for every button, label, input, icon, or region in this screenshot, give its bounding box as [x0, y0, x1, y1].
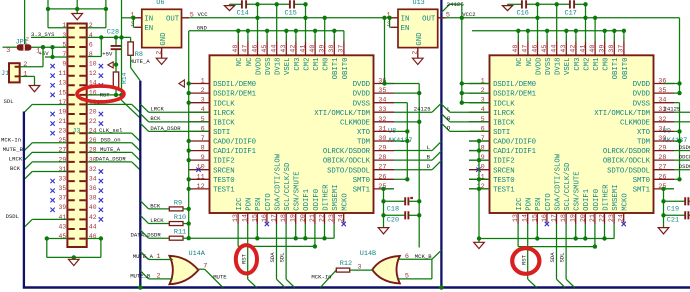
bus entry DATA_DSDR [140, 230, 148, 238]
svg-text:24: 24 [618, 214, 626, 222]
VCC2 rail U13 OUT to right edge [446, 17, 680, 19]
svg-text:15: 15 [251, 214, 259, 222]
svg-text:MUTE_A: MUTE_A [130, 58, 151, 65]
bus entry CLK_sel [132, 133, 141, 141]
regulator U6 [142, 9, 182, 47]
wire J3 pin 45 to ground [47, 238, 68, 240]
svg-text:45: 45 [261, 45, 269, 53]
svg-text:27: 27 [658, 164, 666, 172]
svg-text:J1: J1 [1, 70, 9, 78]
bus entry LRCK [140, 215, 148, 223]
svg-text:CM3: CM3 [574, 58, 582, 71]
svg-text:VSEL: VSEL [284, 58, 292, 76]
wire VCC rail U6 OUT to U13 IN [189, 17, 390, 19]
svg-text:18: 18 [280, 214, 288, 222]
U9 pin 13 drop to lower rail [517, 234, 519, 247]
svg-text:9: 9 [201, 154, 205, 162]
svg-text:TEST1: TEST1 [213, 187, 235, 195]
svg-text:VCC: VCC [198, 11, 209, 18]
svg-text:DV18: DV18 [555, 58, 563, 76]
connector J3 body [67, 24, 86, 248]
cap rail with C16 C17 [508, 3, 522, 5]
svg-text:DSDIL/DEM0: DSDIL/DEM0 [213, 81, 256, 89]
U6 pin 1 stub [135, 17, 142, 19]
wire J3 pin 26 DSD_on [87, 142, 132, 144]
svg-text:DSDOR: DSDOR [679, 144, 690, 151]
svg-text:SCL/CCLK/SD: SCL/CCLK/SD [564, 162, 572, 211]
svg-text:DVDD: DVDD [633, 81, 651, 89]
svg-text:SDA: SDA [549, 252, 556, 263]
hierarchical pin arrow at C28/R14 node [108, 62, 113, 68]
U9 TDM wire [674, 140, 680, 142]
svg-text:1: 1 [201, 78, 205, 86]
svg-text:IBICK: IBICK [213, 119, 235, 127]
svg-text:DSDL: DSDL [6, 213, 19, 220]
svg-text:19: 19 [570, 214, 578, 222]
svg-text:DVDD: DVDD [353, 91, 371, 99]
svg-text:37: 37 [338, 45, 346, 53]
svg-text:6: 6 [89, 41, 93, 48]
svg-text:35: 35 [378, 87, 386, 95]
U8 SDA drop [276, 234, 278, 280]
bus entry pin 18 [132, 104, 141, 112]
svg-text:DVSS: DVSS [353, 100, 371, 108]
svg-text:SDTI: SDTI [213, 129, 230, 137]
svg-text:U14A: U14A [189, 250, 206, 258]
svg-text:NC: NC [526, 57, 534, 66]
svg-text:C19: C19 [667, 205, 679, 213]
U9 PDN RST drop [527, 234, 529, 280]
svg-text:DVSS: DVSS [265, 57, 273, 75]
U9 top pin risers to GND rail [517, 31, 519, 35]
svg-text:CDTO: CDTO [265, 193, 273, 211]
wires U9 pins 1-3 [462, 83, 490, 85]
vertical DVSS to XTO TDM SMT0 right [679, 103, 681, 180]
svg-text:40: 40 [589, 45, 597, 53]
svg-text:SDA: SDA [269, 252, 276, 263]
U14A output diagonal to bus [205, 269, 223, 287]
bus 4 vertical [440, 0, 442, 288]
ground symbol under C19 C21 [658, 228, 669, 234]
connector J3 no-connect marks right (pins 10,12,14,20,22,32,34,36,38,40,42) [99, 64, 103, 68]
svg-text:BCK: BCK [150, 202, 161, 209]
bus entry MUTE_A [132, 152, 141, 160]
svg-text:XTO: XTO [637, 129, 651, 137]
svg-text:OLRCK/DSDOR: OLRCK/DSDOR [603, 148, 651, 156]
svg-text:42: 42 [570, 45, 578, 53]
svg-text:TEST1: TEST1 [493, 187, 515, 195]
svg-text:36: 36 [89, 185, 97, 192]
svg-text:CM2: CM2 [303, 58, 311, 71]
svg-text:5: 5 [201, 116, 205, 124]
ground symbol U13 [413, 58, 424, 64]
svg-text:35: 35 [59, 185, 67, 192]
svg-text:13: 13 [232, 214, 240, 222]
svg-text:2: 2 [412, 51, 420, 55]
svg-text:ODIF0: ODIF0 [593, 189, 601, 211]
svg-text:TDM: TDM [357, 139, 370, 147]
U6 EN wire [132, 18, 134, 28]
bus entry DSDL [24, 219, 32, 227]
svg-text:6: 6 [201, 125, 205, 133]
svg-text:C18: C18 [387, 205, 399, 213]
svg-text:C17: C17 [565, 10, 577, 18]
ground symbol J1 [29, 86, 40, 92]
svg-text:35: 35 [658, 87, 666, 95]
svg-text:14: 14 [242, 214, 250, 222]
svg-text:R10: R10 [174, 214, 186, 222]
svg-text:PDN: PDN [246, 198, 254, 211]
resistor R14 [113, 72, 118, 87]
svg-text:20: 20 [299, 214, 307, 222]
svg-text:2: 2 [201, 87, 205, 95]
svg-text:TEST0: TEST0 [493, 177, 514, 185]
ground symbol U6 [156, 58, 167, 64]
capacitor C17 [570, 0, 574, 8]
svg-text:3: 3 [6, 47, 10, 55]
svg-text:CSN/SMUTE: CSN/SMUTE [294, 171, 302, 210]
wire J3 pin 28 MUTE_A [87, 151, 132, 153]
cap rail with C14 C15 [230, 3, 242, 5]
wire J3 pin 2 [87, 27, 106, 29]
U13 pin 5 stub [438, 17, 446, 19]
svg-text:18: 18 [560, 214, 568, 222]
pin 36 corner down to pin 35 [418, 84, 420, 94]
svg-text:19: 19 [290, 214, 298, 222]
capacitor C21 [664, 214, 685, 216]
hierarchical arrow at U8 pin 1 [179, 80, 185, 87]
svg-text:BCK: BCK [10, 165, 21, 172]
U9 top pins 48-37 [517, 42, 519, 56]
wire RST into bus [121, 95, 123, 100]
svg-text:13: 13 [59, 80, 67, 87]
U8 left pins 1-12 [189, 83, 210, 85]
svg-text:LRCK: LRCK [150, 217, 164, 224]
svg-text:46: 46 [531, 45, 539, 53]
svg-text:GND: GND [160, 32, 168, 46]
svg-text:24125: 24125 [664, 105, 681, 112]
svg-text:30: 30 [378, 135, 386, 143]
svg-text:37: 37 [618, 45, 626, 53]
CLKMODE wire [394, 121, 419, 123]
svg-text:15: 15 [531, 214, 539, 222]
svg-text:OBIT1: OBIT1 [612, 57, 620, 80]
svg-text:SDL: SDL [4, 98, 14, 105]
svg-text:23: 23 [608, 214, 616, 222]
DVSS pin 34 wire [394, 102, 407, 104]
U8 SDL drop [285, 234, 287, 280]
svg-text:40: 40 [89, 204, 97, 211]
svg-text:1: 1 [23, 70, 27, 78]
svg-text:43: 43 [560, 45, 568, 53]
regulator U13 [398, 9, 438, 47]
U9 XTI wire with 24125 label [674, 111, 690, 113]
OR gate U14A [170, 256, 199, 284]
capacitor C18 [384, 200, 405, 202]
bus entry SDL [24, 104, 32, 112]
svg-text:MUTE_B: MUTE_B [3, 146, 24, 153]
svg-text:CM1: CM1 [593, 57, 601, 71]
svg-text:26: 26 [378, 173, 386, 181]
svg-text:IDIF2: IDIF2 [493, 158, 514, 166]
SMT0 wire [394, 178, 407, 180]
svg-text:SMSEMI: SMSEMI [612, 185, 620, 211]
U9 right side DVDD pin 36 wire [664, 83, 680, 85]
U9 risers DVDD DV18 CM2 to cap rail [537, 4, 539, 35]
svg-text:28: 28 [378, 154, 386, 162]
svg-text:DVDD: DVDD [255, 57, 263, 75]
svg-text:21: 21 [59, 118, 67, 125]
svg-text:XTO: XTO [357, 129, 371, 137]
U14B feedback to input 5 [431, 259, 433, 279]
svg-text:U14B: U14B [360, 250, 376, 258]
rail under U8 bottom pins [189, 237, 334, 239]
svg-text:42: 42 [89, 214, 97, 221]
svg-text:2: 2 [26, 37, 29, 43]
connector J1 [9, 63, 20, 82]
svg-text:+5V: +5V [102, 50, 113, 57]
svg-text:10: 10 [89, 61, 97, 68]
svg-text:C21: C21 [667, 217, 679, 225]
ground symbol on top rail [76, 9, 78, 14]
U9 DVSS pin 34 wire [674, 102, 680, 104]
wire J3 pin 31 BCK [32, 171, 67, 173]
resistor R11 [169, 236, 183, 240]
lower rail pin13 to pin21 [238, 245, 315, 247]
JP1 pin 2 wire from top [24, 0, 26, 44]
svg-text:42: 42 [290, 45, 298, 53]
bus entry XTI [432, 103, 441, 112]
SMT1 pin 25 wire [383, 188, 394, 190]
U8 no-connect pin 10 [196, 168, 200, 172]
svg-text:GND: GND [416, 32, 424, 46]
U9 SMT1 pin 25 wire [663, 188, 674, 190]
svg-text:22: 22 [89, 118, 97, 125]
ground symbol at cap rail [229, 4, 231, 5]
U9 no-connect CDTO pin 16 [545, 222, 549, 226]
svg-text:32: 32 [378, 116, 386, 124]
svg-text:C20: C20 [387, 217, 399, 225]
riser to J3 pin 7 wire [52, 47, 54, 57]
svg-text:38: 38 [608, 45, 616, 53]
svg-text:ODIF0: ODIF0 [313, 189, 321, 211]
svg-text:DVSS: DVSS [545, 57, 553, 75]
U6 pin 5 stub [182, 17, 190, 19]
U9 left pins 1-12 [469, 83, 490, 85]
svg-text:DSDIL/DEM0: DSDIL/DEM0 [493, 81, 536, 89]
junction dots on top rail [46, 7, 50, 11]
bus entry 24125 at top [441, 4, 449, 12]
wire J1 pin 1 to ground [20, 75, 35, 77]
capacitor C14 [242, 0, 246, 8]
svg-text:19: 19 [59, 108, 67, 115]
svg-text:OBICK/ODCLK: OBICK/ODCLK [323, 158, 371, 166]
wire J3 pin 7 [45, 56, 67, 58]
svg-text:SMT1: SMT1 [633, 187, 651, 195]
svg-text:LRCK: LRCK [150, 106, 164, 113]
svg-text:33: 33 [59, 175, 67, 182]
svg-text:TDM: TDM [637, 139, 650, 147]
wire J3 pin 3 [31, 36, 67, 38]
SRC IC U9 AK4137 body [490, 55, 654, 213]
U9 XTO wire [674, 130, 680, 132]
svg-text:SMT1: SMT1 [353, 187, 371, 195]
svg-text:46: 46 [251, 45, 259, 53]
bus entry MUTE_B [24, 152, 32, 160]
U13 pin 1 stub [391, 17, 398, 19]
wire JP1 to J3 pin 5 [32, 46, 68, 48]
U8 bottom pins 13-24 [237, 213, 239, 224]
svg-text:IDIF2: IDIF2 [213, 158, 234, 166]
svg-text:NC: NC [236, 57, 244, 66]
svg-text:RST: RST [100, 91, 111, 98]
wire to resistor R11 [149, 237, 170, 239]
wire risers to sheet edge [47, 0, 49, 9]
svg-text:3: 3 [201, 97, 205, 105]
svg-text:OUT: OUT [422, 15, 436, 23]
svg-text:37: 37 [59, 195, 67, 202]
wire J3 pin 30 DATA_DSDR [87, 161, 132, 163]
svg-text:SDTI: SDTI [493, 129, 510, 137]
svg-text:ILRCK: ILRCK [213, 110, 235, 118]
svg-text:24125: 24125 [414, 105, 431, 112]
svg-text:SRCEN: SRCEN [213, 167, 234, 175]
U8 PDN RST drop [247, 234, 249, 280]
U9 no-connect MCKO pin 24 [622, 222, 626, 226]
U9 SDA drop [556, 234, 558, 280]
svg-text:I2C: I2C [516, 197, 524, 211]
bus 1 vertical left [23, 112, 25, 288]
svg-text:VCC2: VCC2 [462, 11, 475, 18]
svg-text:23: 23 [328, 214, 336, 222]
wire J3 pin 41 DSDL [32, 218, 67, 220]
svg-text:43: 43 [59, 223, 67, 230]
U14A output pin 7 [198, 268, 204, 270]
U9 pin 40 riser to VCC2 rail [594, 18, 596, 35]
bus junction dots [138, 285, 143, 290]
svg-text:MUTE_B: MUTE_B [130, 272, 151, 279]
U8 risers DVDD DV18 CM2 to cap rail [257, 4, 259, 35]
vertical to CLKMODE and C18 C20 [418, 93, 420, 247]
svg-text:21: 21 [309, 214, 317, 222]
connector J3 inner pin stubs [68, 28, 86, 239]
bus entry MCK-In [320, 270, 336, 287]
svg-text:DVDD: DVDD [633, 91, 651, 99]
svg-text:12: 12 [89, 70, 97, 77]
svg-text:29: 29 [658, 145, 666, 153]
resistor R8 [128, 42, 133, 55]
svg-text:22: 22 [319, 214, 327, 222]
svg-text:4: 4 [201, 106, 205, 114]
svg-text:11: 11 [197, 173, 205, 181]
GND rail above U8 [189, 30, 344, 32]
svg-text:XTI/OMCLK/TDM: XTI/OMCLK/TDM [594, 110, 650, 118]
svg-text:12: 12 [197, 183, 205, 191]
SMT1 drop to C18 C20 ground [383, 189, 385, 228]
svg-text:OBIT0: OBIT0 [622, 58, 630, 80]
svg-text:17: 17 [551, 214, 559, 222]
U9 SMT1 drop to C19 C21 ground [663, 189, 665, 228]
svg-text:DSDOL: DSDOL [679, 163, 690, 170]
svg-text:IN: IN [144, 15, 153, 23]
svg-text:XTI/OMCLK/TDM: XTI/OMCLK/TDM [314, 110, 370, 118]
wire J3 pin 18 [87, 103, 132, 105]
wire J3 pin 4 to R8 [87, 36, 131, 38]
svg-text:L: L [427, 144, 430, 151]
U13 EN wire [389, 18, 391, 28]
svg-text:47: 47 [522, 45, 530, 53]
svg-text:39: 39 [319, 45, 327, 53]
svg-text:39: 39 [599, 45, 607, 53]
resistor R12 [336, 268, 349, 272]
svg-text:DITHER: DITHER [602, 184, 610, 211]
svg-text:32: 32 [658, 116, 666, 124]
svg-text:CM0: CM0 [603, 58, 611, 71]
wire J1 pin 2 to +5V [20, 66, 43, 68]
svg-text:BCK: BCK [150, 115, 161, 122]
wire J3 pin 29 LRCK [32, 161, 67, 163]
svg-text:4: 4 [481, 106, 485, 114]
svg-text:6: 6 [481, 125, 485, 133]
svg-text:2: 2 [157, 272, 161, 280]
svg-text:R9: R9 [174, 199, 182, 207]
svg-text:VSEL: VSEL [564, 58, 572, 76]
svg-text:PSN: PSN [535, 198, 543, 211]
wire R9 to junction [183, 208, 189, 210]
svg-text:3: 3 [481, 97, 485, 105]
svg-text:MUTE_A: MUTE_A [100, 146, 121, 153]
svg-text:32: 32 [89, 166, 97, 173]
svg-text:DATA_DSDR: DATA_DSDR [96, 156, 127, 163]
ground symbol under C18 C20 [378, 228, 389, 234]
bus 2 vertical [139, 81, 141, 288]
svg-text:48: 48 [232, 45, 240, 53]
U8 left ground vertical [188, 31, 190, 239]
svg-text:9: 9 [481, 154, 485, 162]
svg-text:MUTE: MUTE [213, 273, 227, 280]
svg-text:DITHER: DITHER [322, 184, 330, 211]
svg-text:1: 1 [481, 78, 485, 86]
U8 top pins 48-37 [237, 42, 239, 56]
U8 right side: DVDD pin 36 wire [385, 83, 420, 85]
svg-text:U6: U6 [156, 0, 164, 7]
svg-text:CSN/SMUTE: CSN/SMUTE [574, 171, 582, 210]
riser pin4 to pin8 wire [100, 37, 102, 56]
wire J3 pin 8 [87, 56, 102, 58]
svg-text:27: 27 [378, 164, 386, 172]
svg-text:R11: R11 [174, 229, 186, 237]
svg-text:NC: NC [516, 57, 524, 66]
svg-text:SDA/CDTI/SLOW: SDA/CDTI/SLOW [554, 153, 562, 211]
svg-text:21: 21 [589, 214, 597, 222]
DVDD pin 35 wire [394, 92, 419, 94]
svg-text:33: 33 [378, 106, 386, 114]
svg-text:43: 43 [280, 45, 288, 53]
3.3_SYS spine wire from sheet top to U6 and RST row [121, 0, 123, 95]
svg-text:ODIF1: ODIF1 [583, 188, 591, 211]
TDM wire [394, 140, 407, 142]
svg-text:26: 26 [658, 173, 666, 181]
svg-text:15: 15 [59, 89, 67, 96]
wire to resistor R10 [149, 223, 170, 225]
svg-text:OBICK/ODCLK: OBICK/ODCLK [603, 158, 651, 166]
svg-text:RST: RST [240, 253, 247, 264]
svg-text:MCKO: MCKO [342, 193, 350, 211]
vertical DVSS to XTO TDM SMT0 [406, 103, 408, 180]
svg-text:DATA_DSDR: DATA_DSDR [131, 232, 162, 239]
svg-text:17: 17 [271, 214, 279, 222]
svg-text:OBIT0: OBIT0 [342, 58, 350, 80]
